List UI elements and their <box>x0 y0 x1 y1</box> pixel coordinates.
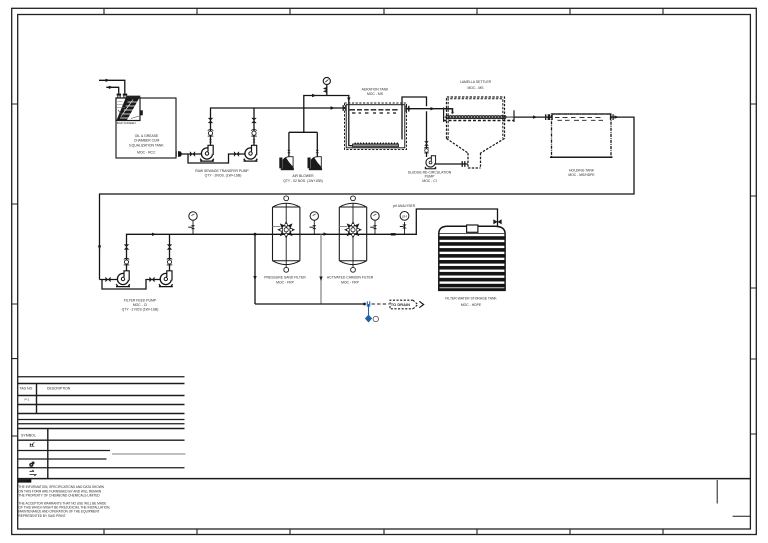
svg-text:pH ANALYSER: pH ANALYSER <box>393 204 416 208</box>
svg-text:P-1: P-1 <box>25 397 30 401</box>
svg-text:TAG NO: TAG NO <box>20 387 33 391</box>
svg-text:REPRESENTED BY SAID PRINT.: REPRESENTED BY SAID PRINT. <box>19 514 67 518</box>
svg-text:MOC - FRP: MOC - FRP <box>276 280 294 284</box>
svg-text:MOC - MS: MOC - MS <box>367 92 384 96</box>
svg-text:MOC - FRP: MOC - FRP <box>341 280 359 284</box>
svg-text:AERATION TANK: AERATION TANK <box>362 87 389 91</box>
svg-text:LAMELLA SETTLER: LAMELLA SETTLER <box>460 80 492 84</box>
svg-text:DESCRIPTION: DESCRIPTION <box>47 387 71 391</box>
svg-text:QTY - 2NOS. (1W+1SB): QTY - 2NOS. (1W+1SB) <box>205 174 242 178</box>
svg-text:THE PROPERTY OF CHEMBOND CHEMI: THE PROPERTY OF CHEMBOND CHEMICALS LIMIT… <box>19 493 101 497</box>
svg-text:ACTIVATED CARBON FILTER: ACTIVATED CARBON FILTER <box>327 275 374 279</box>
svg-text:BAR SCREEN: BAR SCREEN <box>117 121 136 125</box>
svg-text:HOLDING TANK: HOLDING TANK <box>569 168 595 172</box>
svg-text:TO DRAIN: TO DRAIN <box>391 302 410 307</box>
svg-text:NOTE: NOTE <box>19 479 27 483</box>
svg-text:AIR BLOWER: AIR BLOWER <box>292 174 314 178</box>
svg-text:EQUALIZATION TANK: EQUALIZATION TANK <box>129 143 164 147</box>
svg-text:MOC - CI: MOC - CI <box>422 179 436 183</box>
svg-text:MOC - CI: MOC - CI <box>133 303 147 307</box>
svg-text:MOC - MS: MOC - MS <box>467 86 484 90</box>
svg-text:MOC - RCC: MOC - RCC <box>137 150 156 154</box>
svg-text:PRESSURE SAND FILTER: PRESSURE SAND FILTER <box>264 275 306 279</box>
svg-text:QTY - 2 NOS (1W+1SB): QTY - 2 NOS (1W+1SB) <box>122 308 159 312</box>
svg-text:QTY - 02 NOS. (1W+1SB): QTY - 02 NOS. (1W+1SB) <box>283 179 323 183</box>
svg-text:FILTER FEED PUMP: FILTER FEED PUMP <box>124 299 157 303</box>
svg-text:FILTER WATER STORAGE TANK: FILTER WATER STORAGE TANK <box>445 297 497 301</box>
svg-text:pH: pH <box>402 214 407 218</box>
svg-text:MOC - HDPE: MOC - HDPE <box>461 303 482 307</box>
svg-text:RAW SEWAGE TRANSFER PUMP: RAW SEWAGE TRANSFER PUMP <box>195 169 249 173</box>
svg-text:CHAMBER CUM: CHAMBER CUM <box>134 138 160 142</box>
svg-text:MOC - MS/HDPE: MOC - MS/HDPE <box>568 173 595 177</box>
svg-text:SYMBOL: SYMBOL <box>21 433 36 437</box>
